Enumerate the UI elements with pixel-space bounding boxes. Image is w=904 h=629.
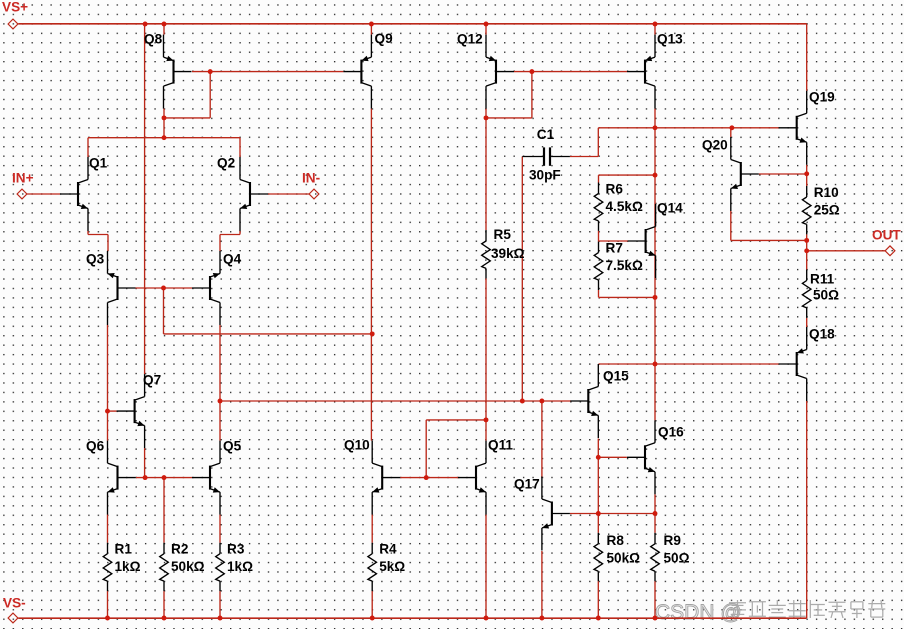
resistor R5 (482, 230, 491, 278)
label Q17 (514, 476, 540, 491)
wire base bias horizontal (164, 333, 373, 335)
svg-text:1kΩ: 1kΩ (227, 559, 253, 574)
wire Q15 emitter down (597, 439, 599, 514)
svg-text:Q14: Q14 (657, 200, 683, 215)
junction Q20 emitter OUT (804, 238, 809, 243)
wire R7 bottom to node (599, 296, 656, 298)
label C1 (537, 127, 555, 142)
transistor Q6 (108, 441, 136, 515)
svg-text:4.5kΩ: 4.5kΩ (606, 199, 643, 214)
resistor R8 (594, 533, 603, 581)
svg-text:Q16: Q16 (658, 424, 684, 439)
label Q20 (702, 137, 728, 152)
label Q6 (86, 438, 105, 453)
svg-text:Q2: Q2 (217, 155, 236, 170)
port VS+ (8, 19, 18, 29)
wire Q16 base red (598, 456, 627, 458)
svg-text:OUT: OUT (872, 227, 901, 242)
svg-text:CSDN @: CSDN @ (655, 601, 742, 624)
svg-text:Q19: Q19 (809, 89, 835, 104)
wire IN+ to Q1 base (27, 193, 60, 195)
junction R2 top (162, 475, 167, 480)
wire Q9 emitter stub (370, 24, 372, 35)
svg-text:5kΩ: 5kΩ (379, 559, 405, 574)
transistor Q15 (570, 364, 598, 438)
svg-text:50Ω: 50Ω (813, 287, 839, 302)
wire Q4 emitter down chain (219, 325, 221, 441)
port VS- (8, 613, 18, 623)
wire R6 top bend (598, 175, 600, 182)
wire IN- to Q2 base (268, 193, 309, 195)
svg-text:Q6: Q6 (86, 438, 105, 453)
label Q4 (223, 251, 242, 266)
transistor Q2 (240, 157, 268, 231)
junction rail R1 (105, 616, 110, 621)
transistor Q19 (779, 91, 807, 165)
wire R1 bottom (107, 591, 109, 618)
svg-text:Q12: Q12 (457, 31, 483, 46)
junction Q10Q11 base (424, 475, 429, 480)
junction bias wire (370, 331, 375, 336)
wire Q12 emitter stub (485, 24, 487, 35)
wire R6 top to node (599, 174, 656, 176)
wire Q8 base loop left (164, 117, 210, 119)
port OUT (885, 246, 895, 256)
wire Q11 emitter down (485, 515, 487, 618)
wire Q20 emitter down (730, 211, 732, 240)
value C1 (529, 167, 561, 182)
svg-text:Q9: Q9 (375, 31, 394, 46)
wire Q1C-Q2C horizontal (88, 137, 240, 139)
wire Q3 base - Q4 base (136, 287, 193, 289)
wire Q10Q11 base loop up (425, 420, 427, 478)
wire Q20 base red (759, 173, 807, 175)
svg-text:30pF: 30pF (529, 167, 561, 182)
wire Q8 collector down (163, 109, 165, 138)
svg-text:R4: R4 (379, 542, 397, 557)
junction rail R2 (162, 616, 167, 621)
junction Q8 base (208, 69, 213, 74)
svg-text:25Ω: 25Ω (814, 202, 840, 217)
resistor R4 (368, 543, 377, 591)
wire Q17 base to R8 node (570, 513, 655, 515)
wire Q5 emitter to R3 (219, 515, 221, 543)
transistor Q1 (60, 157, 88, 231)
junction Q16 base (596, 455, 601, 460)
wire Q15C to Q18 base (599, 363, 779, 365)
junction rail R3 (218, 616, 223, 621)
transistor Q10 (372, 441, 400, 515)
label Q1 (89, 155, 108, 170)
transistor Q9 (343, 35, 371, 109)
junction Q8 collector (162, 115, 167, 120)
junction rail Q8 (162, 22, 167, 27)
junction Q15 collector node (653, 362, 658, 367)
wire C1 to Q13C node (598, 127, 655, 129)
transistor Q13 (627, 35, 655, 109)
wire Q8 emitter stub (163, 24, 165, 35)
wire R9 bottom (654, 581, 656, 618)
transistor Q5 (192, 441, 220, 515)
label Q10 (344, 437, 370, 452)
wire VS+ rail (18, 23, 806, 25)
junction R7 bottom (653, 295, 658, 300)
wire VS- rail (18, 617, 806, 619)
label Q13 (657, 31, 683, 46)
svg-text:50kΩ: 50kΩ (607, 550, 641, 565)
junction rail Q9 (369, 22, 374, 27)
svg-text:Q20: Q20 (702, 137, 728, 152)
wire Q13C to Q19 base (655, 127, 779, 129)
svg-text:Q15: Q15 (603, 368, 629, 383)
junction Q1C wire (162, 135, 167, 140)
capacitor C1 (522, 147, 570, 165)
junction R9 top (653, 511, 658, 516)
transistor Q16 (627, 420, 655, 494)
junction Q7 emitter (143, 475, 148, 480)
junction rail Q11E (484, 616, 489, 621)
port label OUT (872, 227, 901, 242)
junction rail R8 (596, 616, 601, 621)
wire Q8 base loop down (209, 72, 211, 118)
wire Q13 collector down chain (654, 109, 656, 364)
label Q8 (144, 31, 163, 46)
label R2 (171, 542, 189, 557)
value R3 (227, 559, 253, 574)
wire Q7 emitter down (144, 448, 146, 478)
junction R6 top (653, 173, 658, 178)
wire Q7 base stub (108, 410, 117, 412)
junction C1 node (653, 125, 658, 130)
wire C1 right riser (597, 128, 599, 157)
label Q18 (809, 326, 835, 341)
wire Q16 emitter stub (654, 494, 656, 513)
transistor Q3 (108, 251, 136, 325)
svg-text:C1: C1 (537, 127, 555, 142)
wire Q19 emitter stub (806, 165, 808, 174)
value R5 (491, 246, 525, 261)
svg-text:R9: R9 (664, 533, 682, 548)
transistor Q17 (542, 477, 570, 551)
junction Q3Q4 base (161, 286, 166, 291)
wire R11 bottom to Q18C (806, 318, 808, 327)
watermark CSDN (655, 600, 885, 624)
svg-text:7.5kΩ: 7.5kΩ (606, 258, 643, 273)
label R4 (379, 542, 397, 557)
wire Q5 base - Q6 base (136, 477, 192, 479)
svg-text:1kΩ: 1kΩ (115, 559, 141, 574)
resistor R6 (594, 183, 603, 231)
wire C1 right lead red (570, 156, 598, 158)
wire Q13 emitter stub (654, 24, 656, 35)
wire OUT lead (807, 250, 885, 252)
wire R11 top (806, 251, 808, 270)
wire Q2E jog down to Q4 (219, 235, 221, 252)
svg-text:Q3: Q3 (86, 251, 105, 266)
label R11 (810, 271, 835, 286)
wire R5 top (485, 118, 487, 230)
svg-text:R3: R3 (227, 542, 245, 557)
wire R2 top (163, 478, 165, 543)
wire node to Q16 collector (654, 364, 656, 420)
wire Q12 base wire (514, 71, 627, 73)
svg-text:Q11: Q11 (488, 437, 513, 452)
resistor R7 (594, 242, 603, 290)
wire Q1E jog down to Q3 (107, 235, 109, 252)
svg-text:R6: R6 (606, 181, 624, 196)
svg-text:Q10: Q10 (344, 437, 370, 452)
wire Q2 emitter down (239, 231, 241, 235)
label Q11 (488, 437, 513, 452)
port label VS- (3, 595, 26, 610)
wire Q20 collector stub (730, 128, 732, 137)
label Q14 (657, 200, 683, 215)
junction rail R9 (653, 616, 658, 621)
junction Q20 collector (729, 125, 734, 130)
port label IN+ (12, 170, 34, 185)
svg-text:IN-: IN- (302, 170, 320, 185)
svg-text:50kΩ: 50kΩ (171, 559, 205, 574)
wire Q12 collector stub (485, 109, 487, 118)
transistor Q7 (117, 374, 145, 448)
wire Q20E to OUT node (731, 239, 807, 241)
svg-text:Q1: Q1 (89, 155, 108, 170)
label Q12 (457, 31, 483, 46)
transistor Q4 (192, 251, 220, 325)
wire Q17 collector up (541, 401, 543, 478)
wire R10 bottom to OUT (806, 234, 808, 250)
resistor R1 (103, 543, 112, 591)
svg-text:R1: R1 (115, 542, 133, 557)
wire R2 bottom (163, 591, 165, 618)
svg-text:Q7: Q7 (143, 372, 161, 387)
port IN+ (17, 189, 27, 199)
value R6 (606, 199, 643, 214)
wire Q7 collector from rail (144, 24, 146, 374)
svg-text:VS-: VS- (3, 595, 26, 610)
svg-text:39kΩ: 39kΩ (491, 246, 525, 261)
svg-text:50Ω: 50Ω (664, 550, 690, 565)
wire Q1E jog (88, 234, 108, 236)
wire Q9 collector to Q10 collector (370, 109, 372, 441)
svg-text:R8: R8 (607, 533, 625, 548)
label Q19 (809, 89, 835, 104)
label R9 (664, 533, 682, 548)
svg-text:Q5: Q5 (223, 438, 242, 453)
wire Q5C to Q15 base (220, 400, 571, 402)
junction Q12 collector (484, 115, 489, 120)
value R8 (607, 550, 641, 565)
svg-text:VS+: VS+ (2, 0, 28, 14)
port label IN- (302, 170, 320, 185)
label R5 (494, 227, 512, 242)
wire R3 bottom (219, 591, 221, 618)
wire Q2E jog (220, 234, 240, 236)
resistor R3 (216, 543, 225, 591)
wire Q12 loop horiz (486, 117, 532, 119)
wire Q18 emitter to VS- (806, 401, 808, 618)
junction Q7 base (105, 409, 110, 414)
junction rail Q12 (484, 22, 489, 27)
wire C1 left drop (521, 157, 523, 402)
svg-text:R10: R10 (814, 185, 839, 200)
wire R9 top (654, 514, 656, 533)
resistor R2 (160, 543, 169, 591)
junction C1 drop (520, 399, 525, 404)
label R1 (115, 542, 133, 557)
label Q15 (603, 368, 629, 383)
transistor Q14 (628, 204, 656, 278)
wire R10 top (806, 174, 808, 186)
value R2 (171, 559, 205, 574)
junction Q4E Q5C (218, 399, 223, 404)
port label VS+ (2, 0, 28, 14)
label R7 (606, 240, 623, 255)
wire Q14 base red (599, 240, 629, 242)
label Q9 (375, 31, 394, 46)
svg-text:Q13: Q13 (657, 31, 683, 46)
value R11 (813, 287, 839, 302)
wire Q8 base to junction (192, 71, 343, 73)
label R10 (814, 185, 839, 200)
svg-text:R11: R11 (810, 271, 835, 286)
wire loop to Q11 collector (426, 419, 486, 421)
transistor Q20 (731, 137, 759, 211)
svg-text:Q17: Q17 (514, 476, 540, 491)
wire Q10 emitter to R4 (371, 515, 373, 543)
transistor Q12 (486, 35, 514, 109)
label Q2 (217, 155, 236, 170)
label Q16 (658, 424, 684, 439)
junction Q11 loop (484, 417, 489, 422)
transistor Q8 (164, 35, 192, 109)
svg-text:R7: R7 (606, 240, 623, 255)
transistor Q18 (779, 327, 807, 401)
value R7 (606, 258, 643, 273)
label Q7 (143, 372, 161, 387)
resistor R11 (802, 270, 811, 318)
junction rail Q17E (539, 616, 544, 621)
wire Q3 emitter down chain (107, 325, 109, 441)
transistor Q11 (458, 441, 486, 515)
label Q5 (223, 438, 242, 453)
wire Q11 collector stub (485, 420, 487, 441)
wire Q1 collector up (87, 138, 89, 157)
wire Q10 base - Q11 base (400, 477, 459, 479)
value R1 (115, 559, 141, 574)
wire R6-R7 link (598, 231, 600, 242)
label R6 (606, 181, 624, 196)
svg-text:Q18: Q18 (809, 326, 835, 341)
wire VS+ right drop to Q19 collector (806, 24, 808, 91)
wire R7 bottom bend (598, 290, 600, 297)
junction Q19 emitter (804, 171, 809, 176)
junction rail Q13 (653, 22, 658, 27)
junction OUT (804, 248, 809, 253)
svg-text:Q4: Q4 (223, 251, 242, 266)
wire Q3Q4 base drop (163, 288, 165, 334)
svg-text:Q8: Q8 (144, 31, 163, 46)
label Q3 (86, 251, 105, 266)
wire Q2 collector up (239, 138, 241, 157)
wire R5 bottom (485, 278, 487, 420)
junction Q17 collector (539, 399, 544, 404)
value R9 (664, 550, 690, 565)
resistor R10 (802, 186, 811, 234)
wire Q17 emitter down (541, 551, 543, 618)
wire Q1 emitter down (87, 231, 89, 235)
resistor R9 (651, 533, 660, 581)
value R10 (814, 202, 840, 217)
wire R8 top (597, 514, 599, 533)
label R8 (607, 533, 625, 548)
junction rail R4 (370, 616, 375, 621)
junction R8 top (596, 511, 601, 516)
wire Q6 emitter to R1 (107, 515, 109, 543)
svg-text:R2: R2 (171, 542, 189, 557)
wire Q12 loop up (531, 72, 533, 118)
wire R8 bottom (597, 581, 599, 618)
junction Q12 base (529, 69, 534, 74)
value R4 (379, 559, 405, 574)
svg-text:IN+: IN+ (12, 170, 34, 185)
svg-text:R5: R5 (494, 227, 512, 242)
label R3 (227, 542, 245, 557)
junction rail Q7 (143, 22, 148, 27)
port IN- (309, 189, 319, 199)
wire R4 bottom (371, 591, 373, 618)
